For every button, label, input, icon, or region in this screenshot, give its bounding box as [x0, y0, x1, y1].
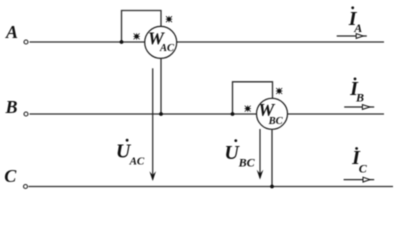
current arrow I_C open head — [363, 177, 370, 182]
polarity asterisk W_BC voltage coil — [276, 88, 282, 94]
svg-text:AC: AC — [159, 43, 175, 54]
wire phase B — [30, 113, 385, 115]
svg-text:AC: AC — [129, 155, 145, 167]
current arrow I_A open head — [356, 34, 363, 39]
svg-text:B: B — [355, 91, 364, 105]
current arrow I_B shaft — [344, 106, 374, 108]
wire phase A — [30, 41, 385, 43]
svg-text:BC: BC — [268, 116, 284, 127]
wire voltage-coil bracket of W_BC — [233, 82, 273, 114]
voltage arrow U_AC head — [149, 171, 156, 181]
svg-text:A: A — [353, 21, 362, 35]
junction dot on B below W_AC — [159, 112, 163, 116]
svg-text:BC: BC — [238, 155, 256, 169]
wire phase C — [29, 186, 394, 188]
svg-text:C: C — [4, 166, 17, 186]
junction dot on A at bracket — [120, 40, 124, 44]
svg-text:B: B — [5, 97, 18, 117]
polarity asterisk W_AC current coil — [133, 33, 139, 39]
polarity asterisk W_BC current coil — [245, 105, 251, 111]
polarity asterisk W_AC voltage coil — [166, 16, 172, 22]
wattmeter W_AC circle — [145, 26, 177, 58]
junction dot on C below W_BC — [270, 185, 274, 189]
current arrow I_A shaft — [337, 35, 367, 37]
junction dot on B at bracket — [231, 112, 235, 116]
voltage arrow U_AC shaft — [152, 68, 154, 179]
terminal C — [24, 185, 28, 189]
wire voltage-coil bracket of W_AC — [122, 11, 162, 43]
svg-text:C: C — [359, 161, 368, 175]
terminal B — [24, 112, 28, 116]
svg-text:A: A — [5, 22, 18, 42]
terminal A — [24, 40, 28, 44]
current arrow I_B open head — [362, 105, 370, 110]
wattmeter W_BC circle — [257, 98, 288, 129]
wire W_BC voltage coil to C — [271, 129, 273, 186]
voltage arrow U_BC head — [257, 170, 264, 180]
voltage arrow U_BC shaft — [259, 129, 261, 178]
wire W_AC voltage coil to B — [160, 58, 162, 114]
current arrow I_C shaft — [344, 179, 375, 181]
